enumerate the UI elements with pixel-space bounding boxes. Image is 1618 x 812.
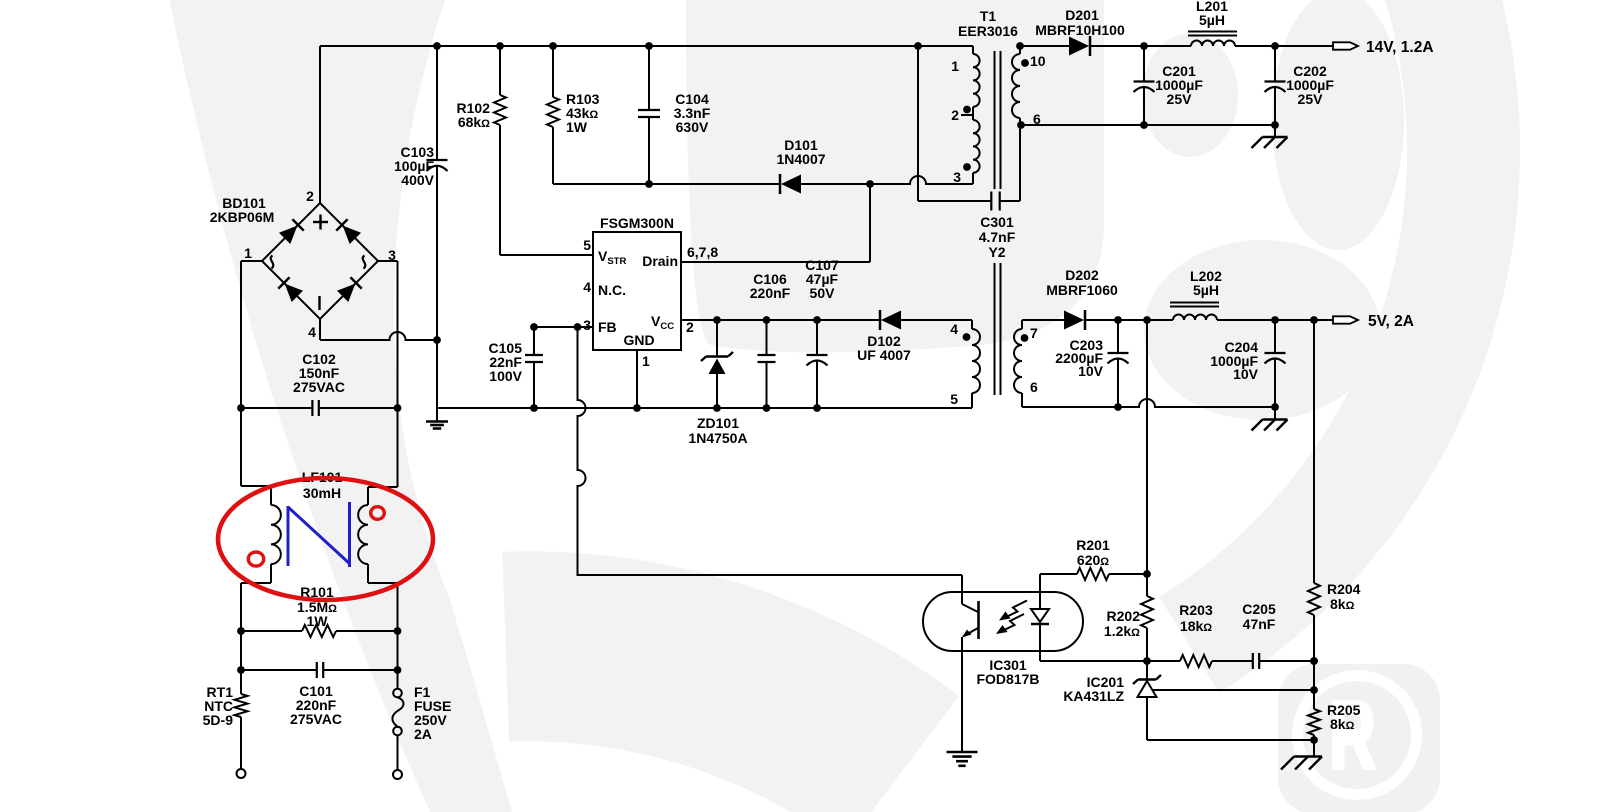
T1 pin 4 phase dot bbox=[963, 333, 971, 341]
ground chassis feedback bbox=[1313, 740, 1315, 756]
wire R101 row to C101 row right bbox=[397, 631, 399, 670]
svg-text:UF 4007: UF 4007 bbox=[857, 347, 911, 363]
T1 pin 7 phase dot bbox=[1021, 334, 1029, 342]
thermistor RT1 bbox=[240, 670, 242, 694]
watermark blob leg mid bbox=[1144, 240, 1380, 420]
IC301 phototransistor bbox=[961, 575, 963, 604]
svg-text:2: 2 bbox=[306, 188, 314, 204]
wire 5V rail from pin 7 bbox=[1022, 319, 1064, 321]
svg-text:3: 3 bbox=[953, 169, 961, 185]
svg-text:2KBP06M: 2KBP06M bbox=[210, 209, 275, 225]
diode D201 bbox=[1069, 37, 1089, 56]
wire 14V return bbox=[1021, 124, 1275, 126]
IC U101 FSGM300N box bbox=[593, 232, 681, 350]
junction C107 top bbox=[813, 316, 821, 324]
junction R101 left bbox=[237, 627, 245, 635]
svg-text:220nF: 220nF bbox=[750, 285, 791, 301]
bridge rectifier BD101 diamond bbox=[262, 203, 378, 319]
junction C105 bottom bbox=[530, 404, 538, 412]
watermark giant ring arc upper-right bbox=[1189, 0, 1463, 645]
capacitor C102 bbox=[241, 407, 312, 409]
transformer T1 secondary 14V winding bbox=[1019, 46, 1021, 54]
svg-text:6: 6 bbox=[1030, 379, 1038, 395]
wire bridge node 1 to left column bbox=[241, 260, 262, 262]
svg-text:2: 2 bbox=[686, 319, 694, 335]
annotation red ring left bbox=[248, 552, 263, 566]
svg-text:FOD817B: FOD817B bbox=[976, 671, 1039, 687]
resistor R204 bbox=[1313, 320, 1315, 583]
wire R102 to VSTR pin 5 bbox=[500, 254, 593, 256]
svg-text:D201: D201 bbox=[1065, 7, 1099, 23]
bridge diode top-right bbox=[336, 219, 361, 244]
junction R102 top bbox=[496, 42, 504, 50]
T1 core top section bbox=[994, 51, 996, 189]
wire FB to optocoupler with hops bbox=[578, 327, 963, 575]
capacitor C301 bbox=[918, 200, 991, 202]
svg-text:5: 5 bbox=[950, 391, 958, 407]
svg-text:1N4007: 1N4007 bbox=[776, 151, 825, 167]
junction anode node bbox=[1310, 736, 1318, 744]
junction R202 bottom bbox=[1143, 657, 1151, 665]
svg-text:R203: R203 bbox=[1179, 602, 1213, 618]
wire Drain pin bbox=[681, 261, 870, 263]
wire VCC line bbox=[681, 319, 879, 321]
T1 pin 2 phase dot bbox=[963, 106, 971, 114]
junction FB branch bbox=[574, 323, 582, 331]
diode D101 bbox=[781, 175, 801, 194]
junction pin 10 corner bbox=[1016, 42, 1024, 50]
resistor R101 bbox=[241, 630, 302, 632]
wire IC301 emitter to ground bbox=[961, 637, 963, 752]
svg-text:630V: 630V bbox=[676, 119, 709, 135]
svg-text:EER3016: EER3016 bbox=[958, 23, 1018, 39]
capacitor C106 bbox=[766, 320, 768, 355]
bridge AC tilde right bbox=[363, 256, 366, 269]
optocoupler IC301 body bbox=[923, 592, 1083, 651]
wire top rail to T1 pin 1 bbox=[918, 45, 973, 47]
svg-text:7: 7 bbox=[1030, 325, 1038, 341]
diode D202 bbox=[1064, 311, 1084, 330]
junction C101 left bbox=[237, 666, 245, 674]
common-mode choke LF101 left winding bbox=[240, 408, 242, 486]
junction R204 bottom bbox=[1310, 657, 1318, 665]
svg-text:1N4750A: 1N4750A bbox=[688, 430, 747, 446]
capacitor C202 bbox=[1274, 46, 1276, 82]
junction drain node bbox=[866, 180, 874, 188]
svg-text:3: 3 bbox=[583, 317, 591, 333]
junction R101 right bbox=[394, 627, 402, 635]
junction C203 bottom bbox=[1114, 403, 1122, 411]
wire snubber line bbox=[553, 183, 779, 185]
shunt regulator IC201 KA431LZ bbox=[1146, 661, 1148, 679]
junction C102 right bbox=[394, 404, 402, 412]
transformer T1 auxiliary winding bbox=[971, 320, 973, 329]
svg-text:R: R bbox=[1330, 683, 1376, 789]
svg-text:4.7nF: 4.7nF bbox=[979, 229, 1016, 245]
resistor R201 bbox=[1040, 573, 1077, 575]
resistor R102 bbox=[499, 46, 501, 95]
T1 core bottom section bbox=[994, 263, 996, 395]
node 5V output arrow bbox=[1333, 316, 1358, 323]
common-mode choke LF101 right winding bbox=[397, 408, 399, 487]
svg-text:25V: 25V bbox=[1298, 91, 1324, 107]
bridge diode top-left bbox=[279, 219, 304, 244]
wire D202 to L202 bbox=[1085, 319, 1173, 321]
zener ZD101 bbox=[716, 320, 718, 356]
wire D102 to aux winding bbox=[901, 319, 972, 321]
junction GND on ground bus bbox=[633, 404, 641, 412]
annotation red ring right bbox=[371, 507, 385, 520]
wire FB line bbox=[534, 326, 593, 328]
svg-text:47nF: 47nF bbox=[1243, 616, 1276, 632]
capacitor C204 bbox=[1274, 320, 1276, 353]
junction C202 bottom bbox=[1271, 121, 1279, 129]
svg-text:D202: D202 bbox=[1065, 267, 1099, 283]
wire IC201 ref bbox=[1153, 689, 1314, 691]
capacitor C205 bbox=[1252, 653, 1254, 669]
svg-text:25V: 25V bbox=[1167, 91, 1193, 107]
svg-text:Y2: Y2 bbox=[988, 244, 1005, 260]
junction C202 top bbox=[1271, 42, 1279, 50]
svg-text:C205: C205 bbox=[1242, 601, 1276, 617]
bridge minus mark bbox=[318, 296, 320, 310]
junction C104 top bbox=[645, 42, 653, 50]
junction C106 bottom bbox=[763, 404, 771, 412]
junction R103 top bbox=[549, 42, 557, 50]
resistor R205 bbox=[1313, 690, 1315, 709]
svg-text:50V: 50V bbox=[810, 285, 836, 301]
capacitor C105 bbox=[533, 327, 535, 355]
wire 5V to feedback divider bbox=[1146, 320, 1148, 574]
IC301 light arrow lower bbox=[1000, 614, 1024, 632]
capacitor C103 bbox=[436, 46, 438, 160]
ground earth primary bbox=[426, 420, 448, 423]
capacitor C107 bbox=[816, 320, 818, 355]
junction FB-C105 bbox=[530, 323, 538, 331]
svg-text:275VAC: 275VAC bbox=[290, 711, 342, 727]
resistor R203 bbox=[1147, 660, 1180, 662]
IC301 LED bbox=[1039, 574, 1041, 609]
watermark blob bowl top-right bbox=[1272, 0, 1404, 250]
svg-text:C301: C301 bbox=[980, 214, 1014, 230]
wire IC201 anode to ground node bbox=[1147, 739, 1314, 741]
watermark blob leg upper bbox=[1142, 33, 1238, 157]
svg-text:275VAC: 275VAC bbox=[293, 379, 345, 395]
svg-text:400V: 400V bbox=[401, 172, 434, 188]
transformer T1 primary winding bbox=[972, 46, 974, 54]
wire bridge node 3 to right column bbox=[378, 260, 398, 262]
junction C205 right bbox=[1310, 657, 1318, 665]
wire D201 to L201 bbox=[1090, 45, 1191, 47]
svg-text:T1: T1 bbox=[980, 8, 997, 24]
junction C104 bottom bbox=[645, 180, 653, 188]
svg-text:1W: 1W bbox=[307, 613, 329, 629]
junction R204 top bbox=[1310, 316, 1318, 324]
resistor R202 bbox=[1146, 574, 1148, 596]
wire C103 to primary ground bbox=[436, 340, 438, 422]
svg-text:1: 1 bbox=[951, 58, 959, 74]
ground chassis 14V bbox=[1274, 125, 1276, 137]
wire L201 to output bbox=[1235, 45, 1334, 47]
svg-text:10V: 10V bbox=[1233, 366, 1259, 382]
capacitor C101 bbox=[241, 669, 317, 671]
capacitor C203 bbox=[1117, 320, 1119, 353]
watermark giant ring arc lower-left bbox=[506, 646, 902, 771]
junction pin 6 bbox=[1017, 121, 1025, 129]
transformer T1 secondary 5V winding bbox=[1021, 320, 1023, 329]
junction C204 top bbox=[1271, 316, 1279, 324]
svg-text:5D-9: 5D-9 bbox=[203, 712, 234, 728]
svg-text:10: 10 bbox=[1030, 53, 1046, 69]
wire 5V return with hop bbox=[1022, 399, 1275, 407]
svg-text:2A: 2A bbox=[414, 726, 432, 742]
terminal right bbox=[393, 770, 402, 779]
bridge diode bottom-right bbox=[337, 277, 362, 302]
T1 pin 10 phase dot bbox=[1021, 59, 1029, 67]
svg-text:ZD101: ZD101 bbox=[697, 415, 739, 431]
watermark band left bbox=[168, 0, 512, 812]
svg-text:4: 4 bbox=[583, 279, 591, 295]
svg-text:Drain: Drain bbox=[642, 253, 678, 269]
junction R201-R202 bbox=[1143, 570, 1151, 578]
terminal left bbox=[237, 769, 246, 778]
svg-text:5V, 2A: 5V, 2A bbox=[1368, 313, 1414, 330]
wire 14V rail bbox=[1020, 45, 1070, 47]
T1 pin 2 tap tick bbox=[961, 114, 973, 116]
junction ZD101 top bbox=[713, 316, 721, 324]
junction C201 bottom bbox=[1140, 121, 1148, 129]
svg-text:MBRF1060: MBRF1060 bbox=[1046, 282, 1118, 298]
junction C102 left bbox=[237, 404, 245, 412]
junction C203 top bbox=[1114, 316, 1122, 324]
svg-text:R204: R204 bbox=[1327, 581, 1361, 597]
junction T1 pin1 rail branch bbox=[914, 42, 922, 50]
watermark stem blob bbox=[686, 0, 1104, 353]
svg-text:14V, 1.2A: 14V, 1.2A bbox=[1366, 39, 1434, 56]
svg-text:2: 2 bbox=[951, 107, 959, 123]
bridge plus mark bbox=[313, 221, 328, 223]
wire LED cathode to R203 node bbox=[1040, 660, 1147, 662]
svg-text:5: 5 bbox=[583, 237, 591, 253]
bridge diode bottom-left bbox=[278, 277, 303, 302]
junction C103 top bbox=[433, 42, 441, 50]
diode D102 bbox=[881, 311, 901, 330]
IC301 light arrow upper bbox=[1003, 601, 1027, 619]
junction ref node bbox=[1310, 686, 1318, 694]
svg-text:FB: FB bbox=[598, 319, 617, 335]
svg-text:5µH: 5µH bbox=[1193, 282, 1219, 298]
svg-text:MBRF10H100: MBRF10H100 bbox=[1035, 22, 1125, 38]
node 14V output arrow bbox=[1333, 42, 1358, 49]
svg-text:R202: R202 bbox=[1107, 608, 1141, 624]
capacitor C201 bbox=[1143, 46, 1145, 82]
wire divider mid bbox=[1313, 661, 1315, 690]
bridge AC tilde left bbox=[271, 256, 274, 269]
junction node4-C103 bbox=[433, 336, 441, 344]
wire bus branch to C301 bbox=[917, 46, 919, 201]
wire D101 to drain node with hop over bus branch bbox=[801, 176, 973, 184]
wire drain riser bbox=[869, 184, 871, 262]
junction C201 top bbox=[1140, 42, 1148, 50]
wire top rail DC bus+ bbox=[320, 45, 918, 47]
svg-text:10V: 10V bbox=[1078, 363, 1104, 379]
inductor L202 bbox=[1173, 315, 1217, 321]
T1 pin 3 phase dot bbox=[963, 163, 971, 171]
inductor L201 bbox=[1191, 41, 1235, 46]
svg-text:100V: 100V bbox=[489, 368, 522, 384]
junction C101 right bbox=[394, 666, 402, 674]
wire bridge node 4 down bbox=[319, 319, 321, 340]
fuse F1 bbox=[397, 670, 399, 689]
svg-text:1: 1 bbox=[244, 245, 252, 261]
svg-text:N.C.: N.C. bbox=[598, 282, 626, 298]
annotation red ellipse bbox=[218, 478, 433, 600]
svg-text:4: 4 bbox=[308, 324, 316, 340]
wire bridge node 4 to ground bus with hop bbox=[320, 332, 437, 340]
wire primary ground bus bbox=[437, 407, 972, 409]
junction C107 bottom bbox=[813, 404, 821, 412]
junction feedback branch top bbox=[1143, 316, 1151, 324]
svg-text:6,7,8: 6,7,8 bbox=[687, 244, 718, 260]
junction C204 bottom bbox=[1271, 403, 1279, 411]
svg-text:KA431LZ: KA431LZ bbox=[1063, 688, 1124, 704]
ground chassis 5V bbox=[1274, 407, 1276, 419]
wire L202 to 5V output bbox=[1217, 319, 1334, 321]
resistor R103 bbox=[552, 46, 554, 97]
svg-text:5µH: 5µH bbox=[1199, 12, 1225, 28]
svg-text:1: 1 bbox=[642, 353, 650, 369]
svg-text:FSGM300N: FSGM300N bbox=[600, 215, 674, 231]
annotation blue N bbox=[287, 506, 290, 566]
svg-text:GND: GND bbox=[623, 332, 654, 348]
wire GND pin bbox=[636, 350, 638, 408]
svg-text:1W: 1W bbox=[566, 119, 588, 135]
junction C106 top bbox=[763, 316, 771, 324]
svg-text:4: 4 bbox=[950, 321, 958, 337]
watermark registered mark bbox=[1278, 664, 1440, 812]
svg-text:30mH: 30mH bbox=[303, 485, 341, 501]
ground earth IC301 bbox=[947, 751, 978, 754]
junction ZD101 bottom bbox=[713, 404, 721, 412]
wire bridge node 2 riser bbox=[319, 46, 321, 203]
svg-text:R201: R201 bbox=[1076, 537, 1110, 553]
wire R101 row to C101 row left bbox=[240, 631, 242, 670]
capacitor C104 bbox=[648, 46, 650, 110]
